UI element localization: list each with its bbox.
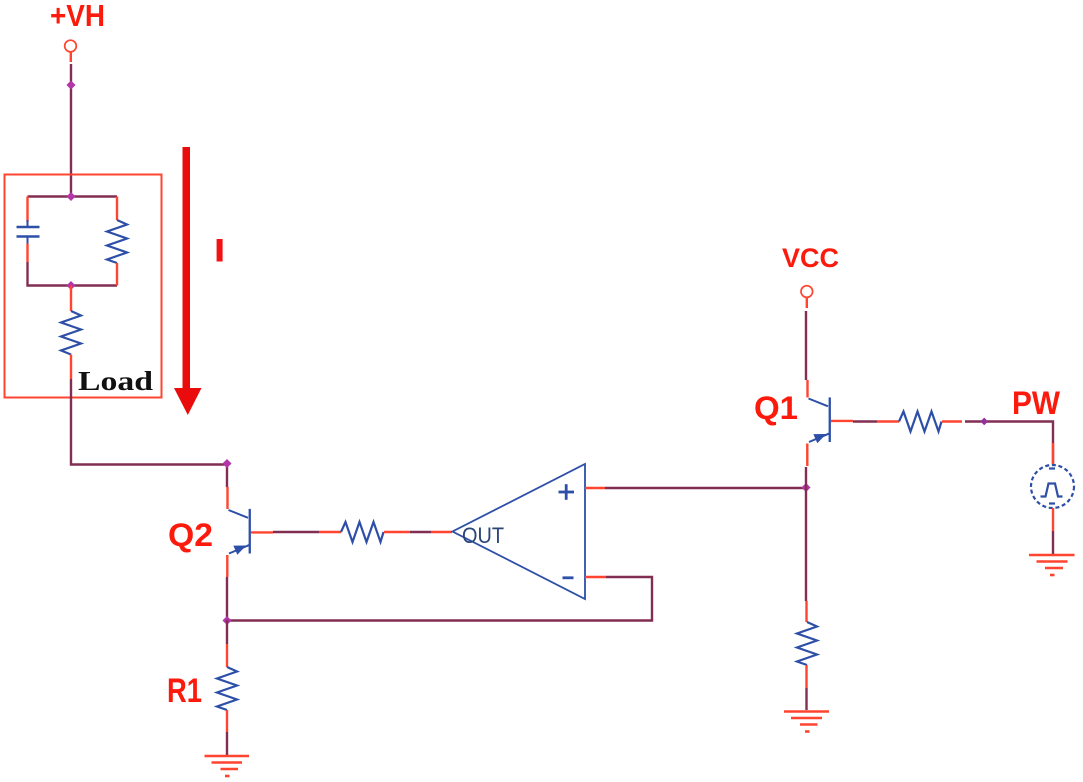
- transistor Q2: [227, 487, 273, 577]
- wire source to ground: [1052, 508, 1054, 554]
- wire VCC to Q1: [805, 311, 807, 380]
- wire VH to load: [70, 64, 72, 197]
- junction parallel bottom: [66, 281, 75, 290]
- resistor R4 on Q1 base: [877, 412, 962, 432]
- wire resistor to PW: [965, 422, 1053, 465]
- power port +VH: [65, 40, 77, 62]
- junction node load/Q2: [222, 459, 231, 468]
- resistor load parallel: [107, 197, 127, 286]
- wire node to R1: [226, 620, 228, 667]
- wire source top stub: [1052, 443, 1054, 464]
- svg-text:PW: PW: [1012, 385, 1061, 421]
- load box: [5, 175, 162, 398]
- ground R1: [205, 756, 250, 776]
- svg-text:OUT: OUT: [462, 523, 504, 548]
- wire opamp minus feedback: [227, 577, 652, 621]
- junction R1 top node: [222, 616, 231, 625]
- source V1 pulse: [1031, 465, 1074, 508]
- resistor R3 emitter: [797, 622, 817, 710]
- wire resistor to opamp out: [410, 531, 431, 533]
- wire load to Q2 node: [71, 379, 227, 487]
- wire Q2 emitter to node: [226, 577, 228, 621]
- wire opamp plus to Q1 emitter node: [605, 487, 806, 489]
- wire Q1 emitter to node: [805, 467, 807, 490]
- wire Q2 base to resistor: [273, 531, 319, 533]
- svg-text:Q1: Q1: [754, 390, 798, 426]
- power port VCC: [801, 286, 813, 308]
- capacitor C1: [17, 197, 40, 263]
- svg-text:Load: Load: [78, 366, 153, 396]
- wire cap bottom corner: [28, 262, 118, 286]
- wire Q1 emitter node down: [805, 488, 808, 622]
- resistor load series: [61, 286, 81, 380]
- svg-text:+VH: +VH: [50, 0, 105, 33]
- wire Q1 base to resistor: [853, 420, 877, 422]
- transistor Q1: [807, 380, 853, 466]
- svg-text:Q2: Q2: [168, 517, 213, 553]
- svg-text:R1: R1: [167, 672, 202, 710]
- junction Q1 emitter node: [801, 483, 810, 492]
- resistor R1: [217, 667, 237, 755]
- op-amp U1: [431, 464, 606, 599]
- label I: [217, 239, 223, 262]
- resistor R2 on Q2 base: [319, 522, 410, 542]
- ground middle: [784, 712, 829, 732]
- ground PW: [1029, 555, 1075, 575]
- junction marker PW wire: [980, 418, 988, 426]
- svg-text:VCC: VCC: [782, 243, 839, 273]
- junction on VH wire: [66, 80, 75, 89]
- junction parallel top: [66, 192, 75, 201]
- wire parallel top: [28, 195, 118, 197]
- current arrow I: [174, 147, 202, 415]
